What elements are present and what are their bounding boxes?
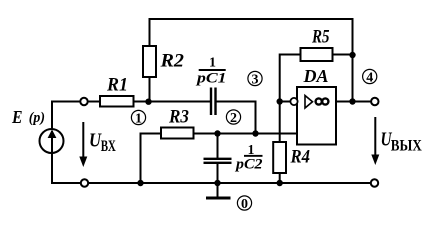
label 1/pC1 [195,56,227,87]
source E(p) [40,129,64,153]
resistor R2 [143,46,156,77]
junction ground rail [214,180,220,186]
svg-text:2: 2 [230,111,237,126]
label 1/pC2 [234,142,263,173]
node 2 label [226,110,240,126]
resistor R5 [301,48,333,61]
svg-text:R4: R4 [290,147,310,168]
junction R4 bottom rail [277,180,283,186]
node 1 label [131,110,145,126]
wire R3 to op-amp noninverting input [194,133,298,135]
node 3 label [248,71,262,87]
wire ground stub [217,183,219,197]
wire E source bottom lead [52,152,81,183]
svg-text:pC1: pC1 [195,70,227,86]
svg-text:3: 3 [252,72,259,87]
svg-text:E: E [11,107,22,127]
junction R1-R2 node 1 [145,99,151,105]
resistor R3 [161,128,194,139]
wire C2 bottom lead [217,163,219,183]
capacitor C1 plates [210,88,212,116]
svg-text:ВЫХ: ВЫХ [391,137,422,154]
wire E source through line [51,131,53,152]
junction op-amp input [277,98,283,104]
wire top rail [150,19,353,102]
svg-text:DA: DA [302,66,328,86]
wire R1 to C1 [134,101,211,103]
node 4 label [363,69,377,85]
wire C1 right to node2 row corner [216,102,256,134]
wire R5 feedback branch [280,55,301,102]
wire R4 top lead [279,102,281,143]
junction output node 4 [349,98,355,104]
svg-text:R5: R5 [311,27,330,48]
input terminal top [80,98,87,105]
wire bottom rail [89,182,371,184]
svg-text:pC2: pC2 [234,157,263,173]
op-amp U1 box [297,87,336,145]
arrow U output [371,117,422,165]
svg-text:0: 0 [241,197,248,212]
wire R4 bottom lead [279,173,281,183]
capacitor C2 plates [204,158,232,160]
wire R5 right lead [333,54,353,56]
arrow U input [79,122,116,167]
output terminal bottom [371,179,378,186]
wire input terminal to R1 [88,101,100,103]
resistor R1 [100,96,134,107]
svg-text:1: 1 [209,56,216,71]
wire E source top lead [52,102,80,130]
svg-text:ВХ: ВХ [101,138,117,155]
junction C2 top node 2 [214,130,220,136]
op-amp inverting input circle [290,98,297,105]
wire node2 row [141,134,162,184]
input terminal bottom [81,179,88,186]
wire C2 top lead [217,134,219,159]
junction C1 drop node 2 [252,130,258,136]
svg-text:(p): (p) [29,110,45,126]
ground [206,197,231,200]
wire op-amp inverting input [280,101,291,103]
wire R2 bottom lead [149,77,151,103]
svg-text:1: 1 [135,111,142,126]
junction R3 bottom rail [137,180,143,186]
op-amp triangle [305,96,313,109]
svg-text:R3: R3 [168,106,189,127]
node 0 label [237,196,251,212]
svg-text:4: 4 [366,70,373,85]
junction R5 right [349,52,355,58]
svg-text:1: 1 [248,142,255,157]
svg-text:R2: R2 [159,50,184,71]
output terminal top [371,98,378,105]
resistor R4 [273,142,286,173]
svg-text:R1: R1 [106,74,128,95]
wire op-amp output [336,101,371,103]
op-amp infinity symbol [316,98,322,104]
